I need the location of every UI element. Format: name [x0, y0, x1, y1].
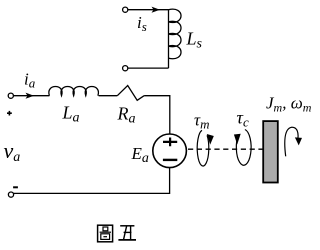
- svg-text:Ls: Ls: [186, 29, 203, 52]
- torque arrow tau_m: [197, 130, 209, 166]
- svg-text:Jm, ωm: Jm, ωm: [266, 94, 312, 115]
- current arrow i_a: [26, 93, 35, 99]
- terminal field top: [123, 7, 128, 12]
- inductor La: [49, 86, 99, 95]
- svg-text:Ea: Ea: [131, 144, 149, 166]
- plus sign: [7, 111, 12, 116]
- inductor Ls: [169, 9, 182, 68]
- svg-text:va: va: [4, 138, 21, 165]
- svg-text:Ra: Ra: [117, 104, 136, 127]
- resistor Ra: [117, 86, 144, 101]
- wire: [99, 95, 118, 97]
- caption glyph tu (figure): [98, 225, 113, 242]
- svg-text:is: is: [137, 13, 147, 34]
- caption glyph wu (five): [118, 226, 136, 240]
- torque arrow tau_c: [236, 130, 251, 166]
- wire: [128, 9, 169, 11]
- svg-text:ia: ia: [24, 70, 36, 91]
- wire: [13, 95, 49, 97]
- wire: [144, 96, 170, 134]
- shaft dashed line: [188, 148, 263, 150]
- wire: [14, 168, 170, 194]
- load inertia Jm: [263, 121, 278, 182]
- current arrow i_s: [152, 7, 161, 13]
- minus inside Ea: [163, 159, 177, 161]
- svg-text:τm: τm: [194, 111, 209, 132]
- plus inside Ea: [163, 138, 177, 147]
- omega_m rotation arrow: [285, 127, 298, 156]
- terminal va plus: [8, 93, 13, 98]
- wire: [128, 67, 169, 69]
- source Ea: [153, 134, 187, 168]
- terminal va minus: [8, 192, 13, 197]
- terminal field bottom: [123, 66, 128, 71]
- svg-text:τc: τc: [237, 108, 249, 130]
- minus sign: [13, 186, 18, 188]
- svg-text:La: La: [62, 103, 80, 126]
